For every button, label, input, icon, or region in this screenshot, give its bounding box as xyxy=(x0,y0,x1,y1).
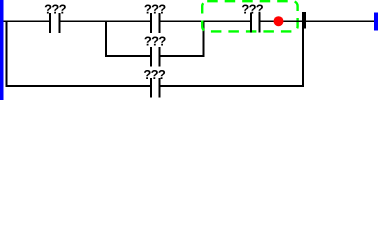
bottom branch left vertical xyxy=(6,20,8,87)
bottom branch wire: left segment xyxy=(6,85,151,87)
wire: C1 to branch-left junction and on to contact C2 xyxy=(61,20,151,22)
svg-text:???: ??? xyxy=(143,67,165,82)
bottom branch right vertical (to merge bar) xyxy=(302,28,304,87)
wire: rail to contact C1 xyxy=(4,20,50,22)
branch right vertical xyxy=(203,20,205,57)
svg-text:???: ??? xyxy=(144,1,166,16)
svg-text:???: ??? xyxy=(44,1,66,16)
contact C4 (parallel branch) xyxy=(150,47,161,67)
svg-text:???: ??? xyxy=(144,33,166,48)
contact C3 (selected) xyxy=(250,13,261,33)
wire: C3 to merge bar xyxy=(261,20,302,22)
left power rail xyxy=(0,0,4,100)
right rail stub (blue) xyxy=(374,13,378,31)
red status dot xyxy=(274,16,284,26)
wire: merge bar to right rail stub xyxy=(306,20,374,22)
branch left vertical xyxy=(105,20,107,57)
contact C2 xyxy=(150,13,161,33)
parallel branch wire: right segment xyxy=(161,55,205,57)
merge bar (thick) xyxy=(302,12,306,29)
parallel branch wire: left segment xyxy=(105,55,150,57)
wire: C2 to branch-right junction xyxy=(161,20,203,22)
bottom branch wire: right segment xyxy=(161,85,304,87)
contact C1 xyxy=(49,13,61,33)
contact C5 (bottom branch) xyxy=(150,78,161,98)
wire: junction to contact C3 xyxy=(205,20,251,22)
selection box (green dashed) xyxy=(202,1,297,31)
